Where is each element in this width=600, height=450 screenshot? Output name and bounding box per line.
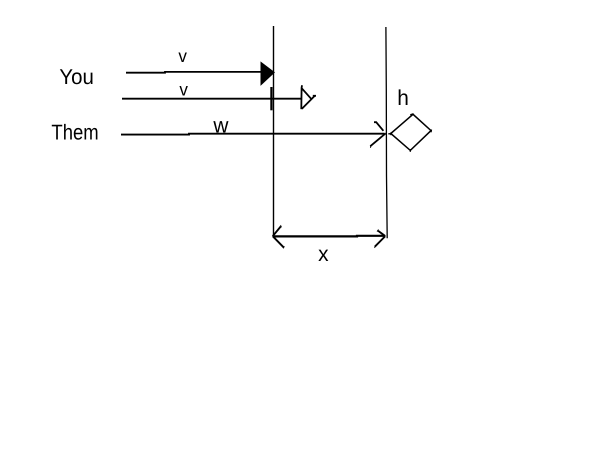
vertical reference line left (273, 26, 275, 236)
diamond bottom vertex dot (410, 149, 411, 152)
arrow w (Them) shaft (121, 133, 384, 136)
arrowhead of w: start dot (370, 145, 371, 148)
arrow v (You) solid triangular head (261, 62, 274, 84)
arrow v (light) shaft (122, 98, 301, 100)
label x (318, 242, 329, 266)
diamond right vertex dot (431, 129, 432, 132)
dimension line x shaft (274, 235, 386, 238)
svg-text:You: You (59, 65, 93, 89)
right arrowhead end dots (375, 230, 379, 247)
label Them (51, 121, 98, 145)
diamond left vertex dot and tick (390, 132, 391, 135)
svg-text:Them: Them (51, 121, 98, 145)
label You (59, 65, 93, 89)
left arrowhead end dots (281, 226, 285, 248)
svg-text:x: x (318, 242, 329, 266)
svg-text:v: v (178, 46, 187, 66)
diamond top tick (410, 114, 413, 115)
arrowhead of w: upper stroke with nub (374, 122, 383, 131)
open arrowhead of light arrow (301, 85, 316, 109)
label v (top) (178, 46, 187, 66)
diamond (package h) (391, 114, 431, 150)
arrow v (You) shaft (126, 71, 262, 74)
svg-text:v: v (179, 79, 188, 99)
arrowhead of w: lower stroke (370, 133, 385, 146)
left arrowhead of x dimension (273, 226, 284, 247)
svg-text:w: w (212, 114, 228, 138)
vertical reference line right (386, 27, 387, 238)
label h (397, 86, 409, 110)
tick mark on light arrow (270, 87, 272, 110)
label v (middle) (179, 79, 188, 99)
svg-text:h: h (397, 86, 409, 110)
label w (212, 114, 228, 138)
right arrowhead of x dimension (375, 231, 385, 247)
